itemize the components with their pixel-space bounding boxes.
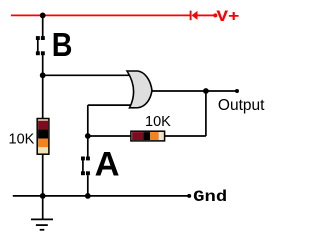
svg-text:10K: 10K — [145, 114, 171, 130]
svg-text:B: B — [52, 27, 73, 64]
svg-text:Gnd: Gnd — [193, 188, 227, 206]
svg-text:V+: V+ — [217, 8, 240, 26]
svg-text:10K: 10K — [9, 131, 35, 147]
svg-text:Output: Output — [218, 97, 265, 114]
svg-text:A: A — [95, 146, 120, 184]
